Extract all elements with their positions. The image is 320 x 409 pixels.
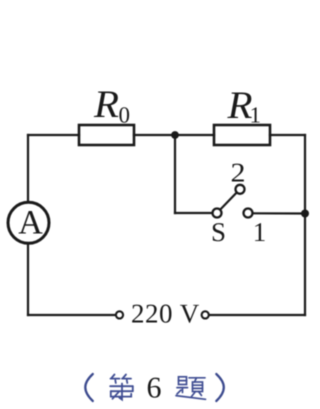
wire top-left horizontal [28,134,79,136]
wire top middle [134,134,214,136]
svg-text:1: 1 [253,217,267,247]
wire right wall upper [304,135,306,214]
wire left wall upper [27,135,29,202]
switch throw 1 contact circle [244,209,253,218]
resistor R1 [214,125,270,145]
switch throw 2 contact circle [236,185,245,194]
svg-text:A: A [18,204,43,241]
svg-text:220 V: 220 V [131,299,200,329]
resistor R0 [79,125,134,145]
wire bottom left [28,314,116,316]
svg-text:S: S [211,217,226,247]
svg-text:R: R [93,83,119,126]
svg-text:2: 2 [231,157,246,187]
wire top-right horizontal [270,134,305,136]
switch blade S [220,192,237,209]
wire throw1 to right wall [252,212,301,214]
ammeter A circle [8,202,49,243]
node junction dot right (right wall / throw1 wire) [301,210,309,218]
wire bottom right [209,314,305,316]
source terminal circle left [116,311,123,318]
caption hanzi TI (题) [176,377,206,400]
node junction dot left (top wire / switch branch) [171,131,179,139]
wire left wall lower [27,243,29,316]
wire right wall lower [304,214,306,316]
svg-text:0: 0 [119,103,131,128]
caption hanzi DI (第) [110,375,133,400]
switch pivot contact circle [213,209,222,218]
source terminal circle right [202,311,209,318]
svg-text:6: 6 [147,371,162,404]
svg-text:1: 1 [250,103,262,128]
wire switch branch vertical [174,135,176,213]
wire to switch pivot [175,212,213,214]
caption close paren [216,374,224,401]
caption open paren [85,374,93,401]
